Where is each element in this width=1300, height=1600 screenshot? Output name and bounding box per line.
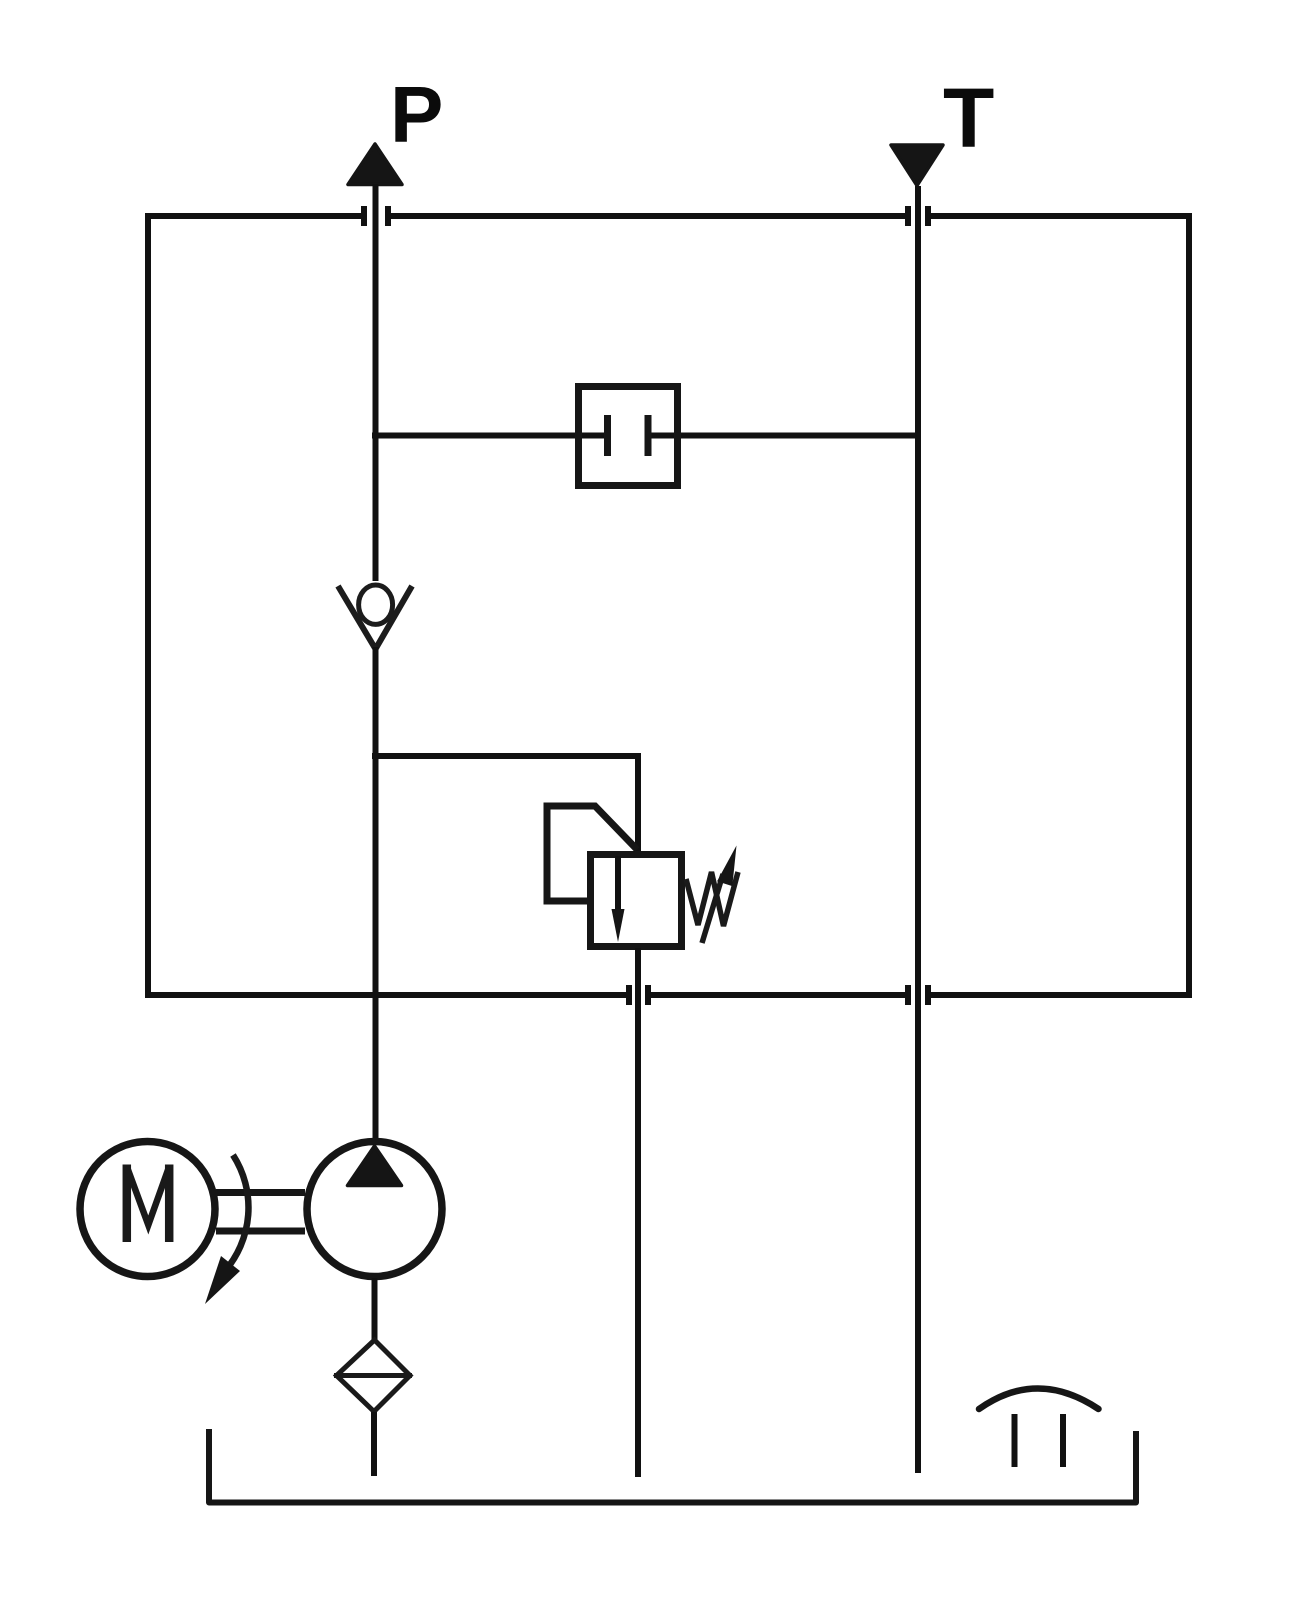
relief valve RV1 spring xyxy=(686,872,738,926)
port P arrow xyxy=(348,144,402,185)
svg-text:T: T xyxy=(943,71,994,165)
rotation arrow xyxy=(205,1155,248,1304)
breather B1 xyxy=(979,1389,1099,1468)
wire relief branch vertical xyxy=(635,753,641,853)
boundary ticks drain bottom xyxy=(629,985,648,1005)
wire P to pump xyxy=(373,647,379,1142)
relief valve RV1 body xyxy=(591,855,682,947)
wire P riser xyxy=(373,184,379,581)
suction filter F1 xyxy=(334,1340,412,1412)
coupling shaft lines xyxy=(216,1193,305,1232)
wire relief branch horizontal xyxy=(372,753,638,759)
pump P1 flow triangle xyxy=(348,1146,402,1186)
port label T xyxy=(943,71,994,165)
motor M letter xyxy=(127,1165,169,1243)
tank T1 xyxy=(209,1429,1136,1503)
check valve V1 xyxy=(338,585,412,649)
port label P xyxy=(390,70,443,159)
relief valve RV1 adjust arrow xyxy=(702,846,737,944)
wire test line left xyxy=(372,433,606,439)
boundary ticks T bottom xyxy=(908,985,928,1005)
wire test line right xyxy=(649,433,921,439)
motor M1 circle xyxy=(80,1142,215,1277)
wire filter to tank xyxy=(371,1412,377,1476)
wire pump suction xyxy=(372,1278,378,1340)
relief valve RV1 pilot line xyxy=(547,806,637,901)
relief valve RV1 flow arrow xyxy=(612,856,625,942)
wire relief drain xyxy=(635,948,641,1477)
pump P1 circle xyxy=(307,1142,442,1277)
test coupling M1 xyxy=(579,387,678,486)
wire T line xyxy=(915,186,921,1473)
boundary ticks T top xyxy=(908,206,928,226)
port T arrow xyxy=(891,145,943,186)
svg-text:P: P xyxy=(390,70,443,159)
boundary ticks P top xyxy=(364,206,388,226)
enclosure boundary xyxy=(145,213,1192,998)
